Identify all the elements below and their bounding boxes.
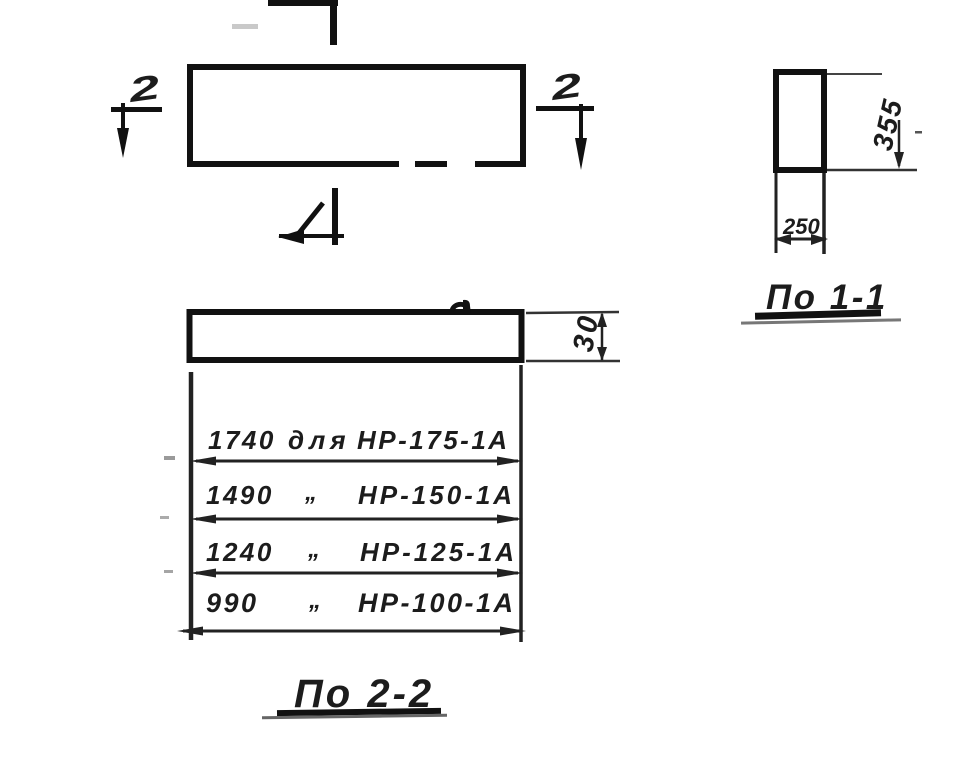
- svg-text:„: „: [307, 536, 323, 563]
- svg-text:НР-150-1А: НР-150-1А: [358, 480, 515, 510]
- svg-text:НР-100-1А: НР-100-1А: [358, 588, 516, 618]
- svg-text:1490: 1490: [206, 480, 274, 510]
- svg-text:для: для: [288, 425, 351, 455]
- svg-text:1240: 1240: [206, 537, 274, 567]
- svg-text:1740: 1740: [208, 425, 276, 455]
- svg-text:990: 990: [206, 588, 259, 618]
- svg-text:НР-175-1А: НР-175-1А: [357, 425, 510, 455]
- svg-text:„: „: [308, 587, 324, 614]
- svg-text:2: 2: [548, 65, 584, 107]
- svg-text:НР-125-1А: НР-125-1А: [360, 537, 517, 567]
- svg-text:„: „: [304, 479, 320, 506]
- svg-text:2: 2: [126, 67, 162, 109]
